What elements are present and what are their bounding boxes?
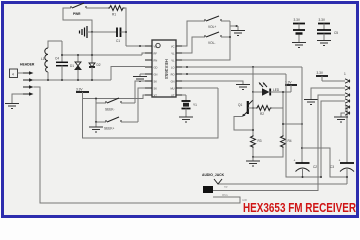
svg-text:RING: RING: [222, 195, 228, 197]
ground cap A: [292, 43, 306, 48]
power 3.3V header: [316, 71, 328, 81]
svg-text:R2: R2: [260, 112, 264, 116]
capacitor C2: [294, 159, 318, 178]
svg-text:+: +: [339, 159, 341, 163]
header pin 3: [23, 85, 34, 89]
wire LED node to R2 node: [282, 92, 284, 108]
ground Y1: [179, 117, 193, 122]
node: [252, 156, 254, 158]
node battery junction: [91, 31, 93, 33]
battery B1: [80, 26, 88, 38]
svg-text:C4: C4: [55, 57, 59, 61]
wire rail to IC pin4: [111, 67, 145, 81]
wire pin13 long: [182, 66, 302, 68]
wire pin13 vertical to C2: [301, 67, 303, 163]
switch VOL-: [205, 32, 230, 45]
wire pin4 to ground: [12, 94, 23, 103]
wire 3.3V branch down: [83, 88, 219, 138]
svg-text:3.3V: 3.3V: [319, 18, 326, 22]
crystal Y1: [182, 95, 198, 117]
header pin a5: [345, 105, 350, 109]
wire pin15 to VOL-: [182, 37, 205, 53]
wire top feed: [63, 8, 92, 32]
capacitor C1: [116, 28, 121, 44]
wire R4 top branch: [283, 123, 302, 125]
node: [252, 91, 254, 93]
wire: [86, 7, 108, 9]
power 3.3V LED: [285, 81, 297, 93]
ground a6: [334, 117, 348, 122]
svg-text:C5: C5: [334, 31, 338, 35]
svg-text:SEEK+: SEEK+: [104, 127, 115, 131]
antenna rail top: [61, 41, 63, 55]
svg-text:LED: LED: [273, 88, 280, 92]
wire battery node down to antenna rail: [91, 32, 93, 62]
header pin a2: [345, 86, 350, 90]
ground cap B: [317, 41, 331, 46]
svg-text:PWR: PWR: [73, 12, 81, 16]
svg-text:TIP: TIP: [224, 187, 228, 189]
svg-text:C3: C3: [330, 165, 334, 169]
wire to ground: [230, 25, 238, 27]
wire C3 loop: [302, 148, 347, 177]
svg-text:HEADER: HEADER: [20, 63, 35, 67]
svg-text:XT: XT: [171, 94, 175, 98]
diode D2: [89, 62, 101, 80]
node: [346, 176, 348, 178]
node: [77, 79, 79, 81]
wire 3.3V branch right: [83, 95, 146, 99]
wire pin16 to VOL+: [182, 21, 205, 46]
power 3.3V top cap A: [293, 18, 305, 30]
header pin a1: [345, 79, 350, 83]
svg-text:SK: SK: [154, 80, 158, 84]
node pin1 wire: [139, 45, 141, 47]
wire pin3 long ground run: [34, 87, 241, 203]
resistor R2: [248, 106, 283, 117]
svg-text:HEX3653: HEX3653: [164, 59, 169, 79]
wire battery to C1: [87, 31, 117, 33]
node: [95, 98, 97, 100]
node: [47, 79, 49, 81]
svg-text:SEEK-: SEEK-: [105, 108, 115, 112]
node: [282, 123, 284, 125]
switch PWR: [71, 3, 86, 16]
capacitor C6 top A: [293, 30, 305, 42]
node: [229, 36, 231, 38]
ground a2: [304, 100, 318, 105]
wire pin11 to ground: [182, 81, 243, 84]
ground R3: [246, 157, 260, 166]
capacitor C5: [317, 30, 338, 40]
svg-text:4: 4: [12, 73, 14, 77]
inductor L1: [41, 41, 62, 80]
switch VOL+: [205, 16, 230, 29]
node: [91, 54, 93, 56]
node: [302, 176, 304, 178]
capacitor C4: [55, 55, 68, 80]
header pin a3: [345, 93, 350, 97]
resistor R1: [108, 6, 125, 17]
ground mid: [236, 85, 250, 90]
node: [320, 176, 322, 178]
ground header: [5, 104, 19, 109]
switch SEEK+: [96, 117, 138, 131]
node: [186, 66, 188, 68]
wire a3 long to jack ring: [213, 95, 345, 191]
svg-text:VL: VL: [171, 59, 175, 63]
svg-text:D1: D1: [70, 64, 74, 68]
wire a5 down to C3: [345, 107, 347, 163]
svg-text:VC: VC: [171, 45, 175, 49]
svg-text:LO: LO: [171, 66, 174, 70]
svg-text:HEX3653 FM RECEIVER: HEX3653 FM RECEIVER: [243, 200, 356, 215]
header pin a4: [345, 99, 350, 103]
wire C1 to node: [121, 31, 127, 33]
wire a2 to ground: [311, 88, 345, 99]
svg-text:R3: R3: [258, 139, 262, 143]
svg-text:VOL-: VOL-: [208, 41, 215, 45]
wire seek+ to pin8: [138, 88, 145, 122]
resistor R3: [251, 135, 262, 148]
header J?: [10, 63, 35, 78]
header pin 4: [23, 92, 34, 96]
svg-text:D2: D2: [97, 63, 101, 67]
wire resistor bottoms: [253, 148, 283, 157]
switch SEEK-: [96, 98, 135, 112]
wire to IC pin1: [126, 45, 145, 47]
wire seek- to pin7: [135, 81, 145, 103]
node: [252, 107, 254, 109]
diode D1: [70, 55, 81, 80]
header pin a6: [345, 111, 350, 115]
svg-text:Y1: Y1: [193, 103, 197, 107]
header pin 1: [23, 71, 34, 75]
wire a1: [322, 80, 345, 82]
wire R1 to vertical: [125, 8, 127, 46]
audio jack J2: [202, 173, 247, 202]
svg-text:C1: C1: [116, 39, 120, 43]
node: [91, 79, 93, 81]
node: [61, 79, 63, 81]
node: [186, 73, 188, 75]
svg-text:R4: R4: [288, 139, 292, 143]
power 3.3V top cap B: [318, 18, 330, 30]
svg-text:GD: GD: [154, 66, 158, 70]
capacitor C3: [330, 159, 354, 185]
svg-text:MU: MU: [170, 87, 174, 91]
wire pin12 long: [182, 73, 286, 75]
svg-text:L1: L1: [41, 57, 45, 61]
LED D3: [253, 82, 291, 96]
op-amp-ic U1 HEX3653: [145, 40, 182, 98]
svg-text:RF: RF: [154, 52, 158, 56]
svg-text:Q1: Q1: [238, 103, 242, 107]
resistor R4: [281, 108, 292, 148]
pin5 ground wire: [140, 73, 145, 75]
svg-text:GN: GN: [154, 73, 158, 77]
svg-text:VD: VD: [154, 45, 158, 49]
svg-text:RN: RN: [154, 59, 158, 63]
svg-text:R1: R1: [112, 13, 116, 17]
antenna rail bottom: [33, 79, 111, 81]
ground pin5: [133, 74, 147, 82]
svg-text:SK: SK: [154, 87, 158, 91]
wire LED branch vertical: [252, 67, 254, 135]
svg-text:3.3V: 3.3V: [317, 71, 324, 75]
node seek ground junction: [95, 121, 97, 123]
ground seek: [89, 122, 103, 132]
svg-text:3.3V: 3.3V: [76, 88, 83, 92]
svg-text:+: +: [294, 159, 296, 163]
wire pin10 down: [182, 87, 218, 89]
svg-text:1: 1: [344, 72, 346, 76]
header pin 2: [23, 78, 34, 82]
node: [282, 91, 284, 93]
svg-text:3.3V: 3.3V: [294, 18, 301, 22]
power 3.3V left: [76, 88, 89, 99]
transistor Q1: [234, 92, 253, 130]
svg-text:XT: XT: [154, 94, 158, 98]
svg-text:AUDIO_JACK: AUDIO_JACK: [202, 173, 225, 177]
svg-text:RO: RO: [171, 73, 175, 77]
node: [301, 123, 303, 125]
node: [236, 25, 238, 27]
node emitter to R3: [252, 129, 254, 131]
node: [77, 54, 79, 56]
ground VOL: [231, 26, 245, 36]
svg-text:GN: GN: [171, 80, 175, 84]
node C1/R1: [125, 31, 127, 33]
svg-text:VL: VL: [171, 52, 175, 56]
node: [252, 66, 254, 68]
wire jack tip long: [218, 183, 347, 185]
node: [61, 54, 63, 56]
wire a4 down: [321, 101, 345, 177]
wire pin12 vertical down: [286, 74, 321, 177]
wire seek left drop: [95, 99, 97, 123]
svg-text:VOL+: VOL+: [208, 25, 216, 29]
svg-text:C2: C2: [313, 165, 317, 169]
wire a6 to ground: [341, 113, 345, 117]
wire VOL common vertical: [182, 21, 230, 60]
node: [301, 147, 303, 149]
